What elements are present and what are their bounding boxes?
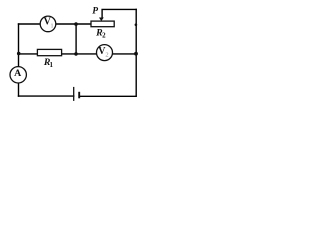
resistor R1 (37, 49, 61, 55)
rheostat R2 (91, 21, 114, 27)
wire left rail lower segment (18, 83, 20, 96)
wire left rail upper segment (18, 24, 20, 67)
svg-text:2: 2 (105, 52, 108, 59)
wire top rail right segment (56, 23, 91, 25)
label R1 (43, 57, 54, 69)
svg-text:P: P (92, 7, 98, 17)
junction left rail with second rail (17, 52, 21, 56)
junction right rail with V2 wire (134, 52, 138, 56)
wiper arrow of rheostat (99, 18, 104, 22)
voltmeter V1 (40, 16, 56, 32)
wire bottom rail right segment (80, 95, 136, 97)
wire wiper lead to right rail (102, 9, 136, 17)
voltmeter V2 (97, 45, 113, 61)
label R2 (95, 27, 106, 39)
svg-text:A: A (14, 68, 21, 79)
wire bottom rail left segment (19, 95, 74, 97)
wire second rail middle segment (62, 53, 97, 55)
junction middle bottom (74, 52, 78, 56)
battery long plate (73, 87, 75, 101)
svg-text:1: 1 (50, 22, 53, 29)
ammeter A (10, 67, 26, 83)
svg-text:2: 2 (102, 31, 106, 39)
junction nub on right rail (135, 23, 138, 26)
wire middle vertical branch (75, 24, 77, 54)
wire second rail right segment (112, 53, 136, 55)
junction top middle (74, 22, 78, 26)
wire second rail left segment (19, 53, 38, 55)
battery short plate (78, 92, 80, 99)
wire top rail left segment (19, 23, 41, 25)
wire right rail (135, 9, 137, 96)
svg-text:1: 1 (49, 61, 53, 69)
